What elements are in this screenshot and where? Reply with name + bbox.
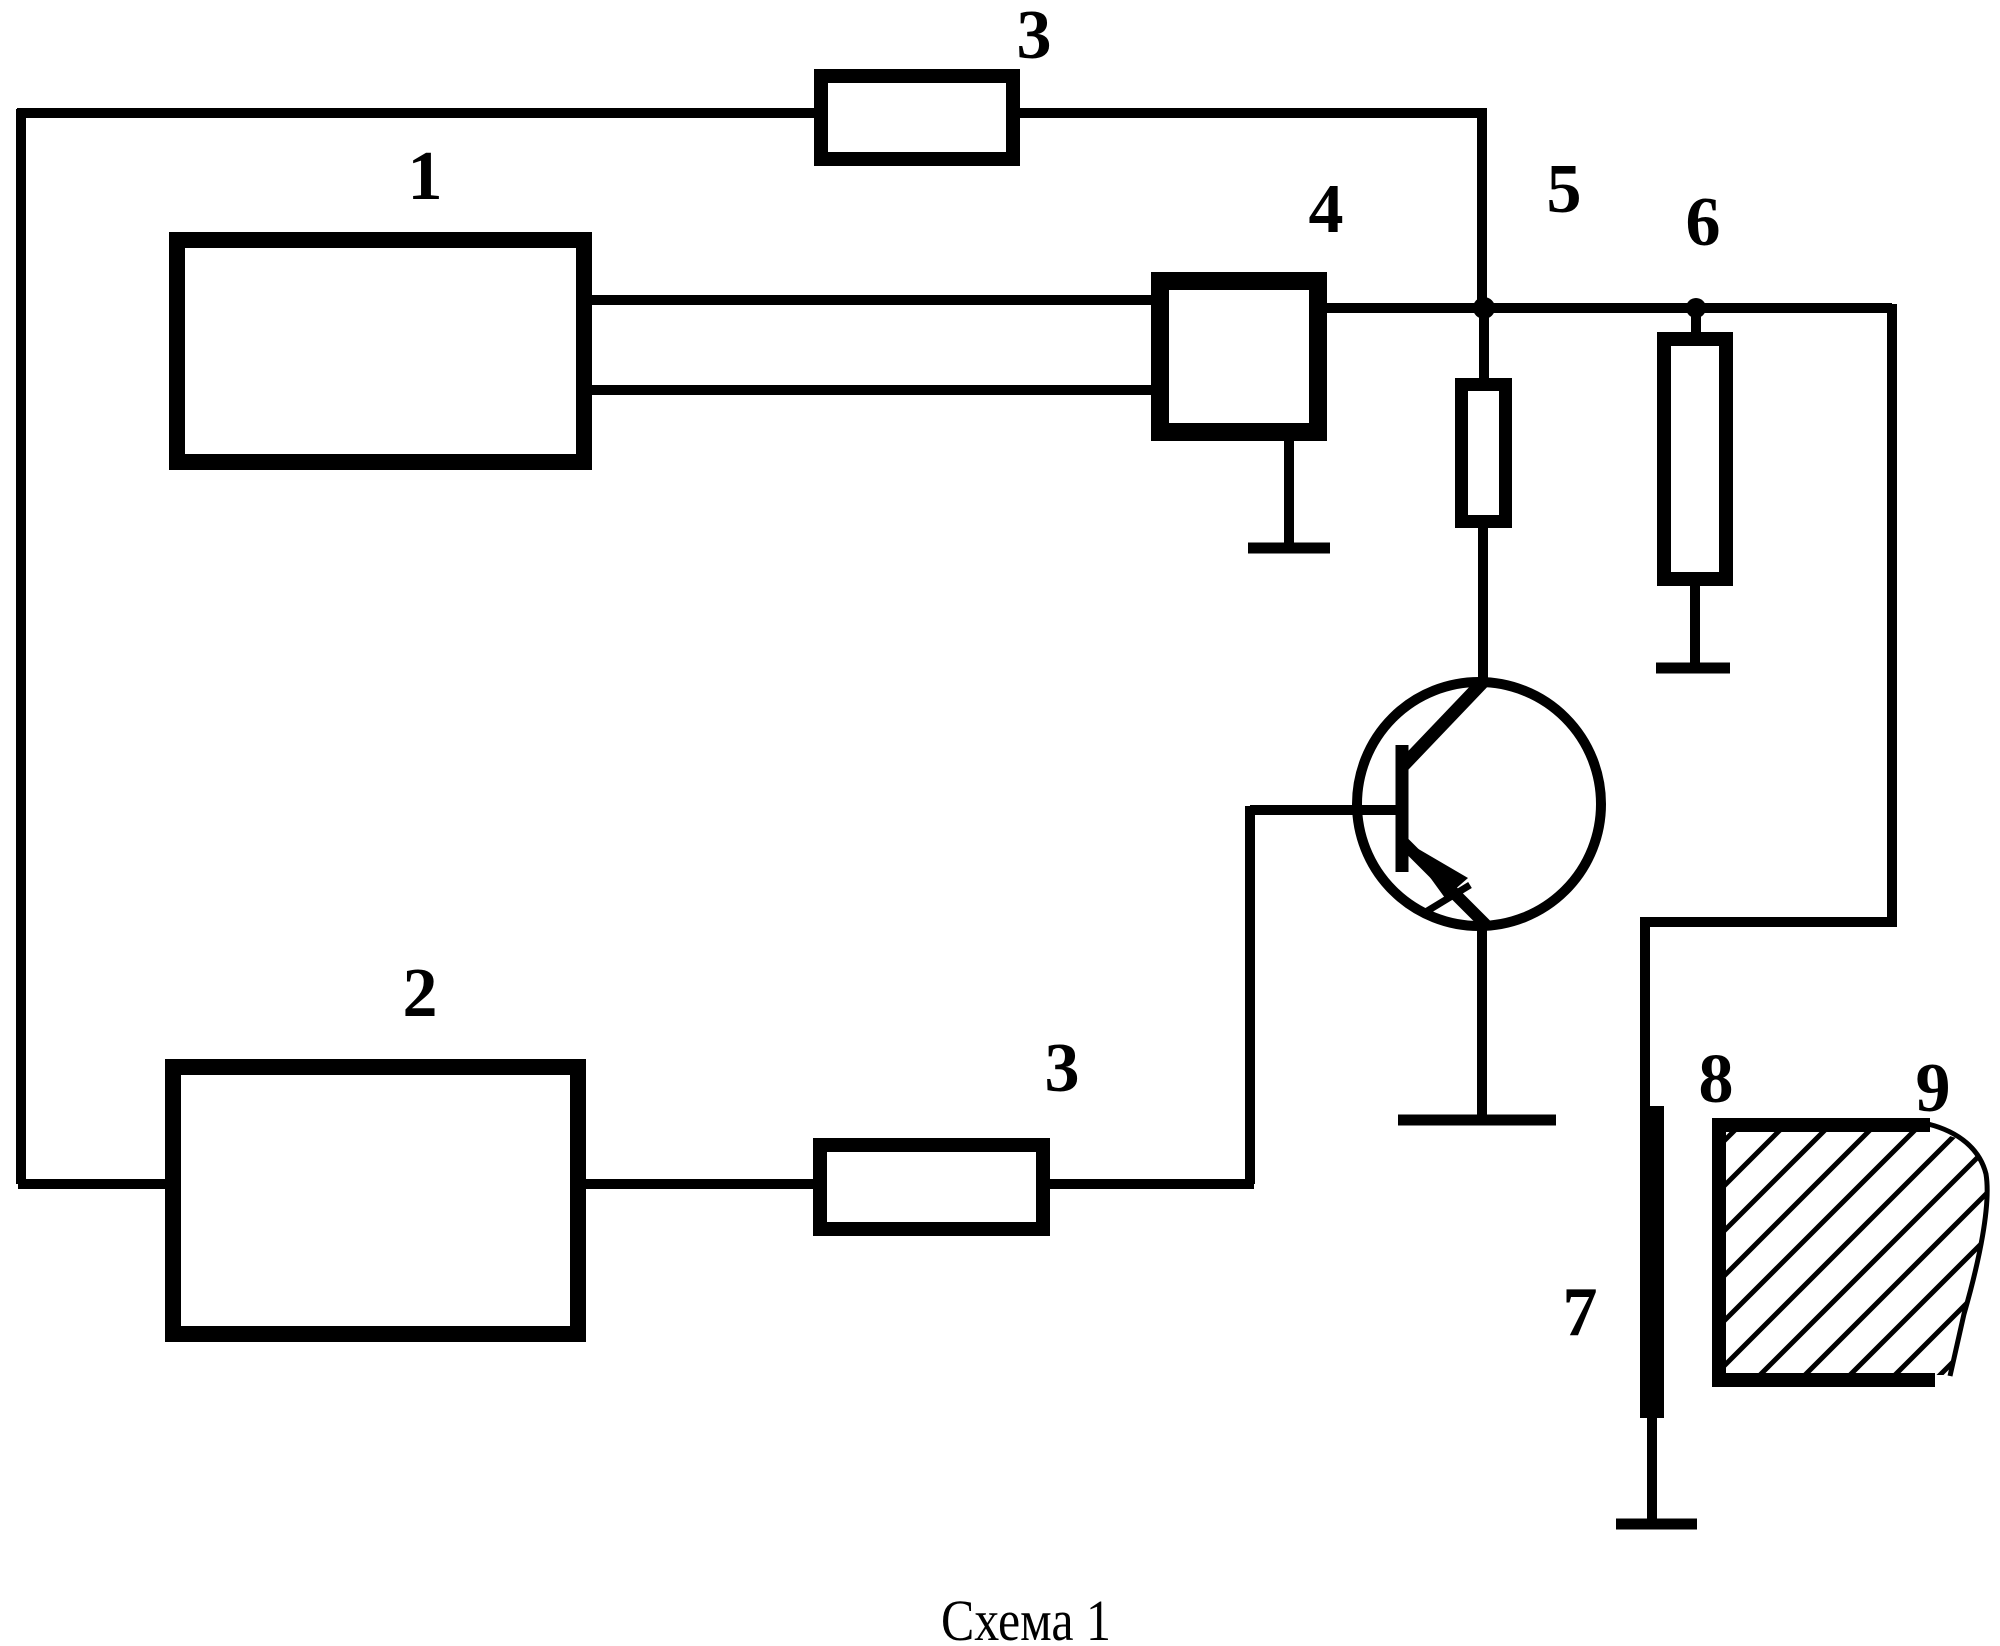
sample 8/9: irregular right outline bbox=[1928, 1124, 1987, 1376]
sample 8/9: thick bottom edge bbox=[1712, 1373, 1935, 1387]
svg-text:6: 6 bbox=[1686, 184, 1721, 261]
transistor emitter arrow overdraw stroke bbox=[1424, 885, 1470, 913]
wire: below electrode 7 to ground bbox=[1647, 1418, 1657, 1524]
svg-text:4: 4 bbox=[1309, 171, 1344, 248]
transistor emitter diagonal bbox=[1404, 843, 1486, 925]
resistor R3 (top feedback) bbox=[821, 76, 1013, 159]
ground bar under resistor 6 bbox=[1656, 663, 1730, 674]
svg-text:7: 7 bbox=[1563, 1274, 1598, 1351]
svg-text:3: 3 bbox=[1045, 1030, 1080, 1107]
wire: block 4 output bus to right rail bbox=[1319, 303, 1892, 313]
resistor R3 (bottom) bbox=[820, 1145, 1043, 1229]
transistor emitter arrowhead (points to base, PNP) bbox=[1403, 840, 1468, 898]
svg-text:2: 2 bbox=[403, 955, 438, 1032]
transistor Q (circle) bbox=[1357, 682, 1601, 926]
svg-text:1: 1 bbox=[408, 138, 443, 215]
electrode 7 (thick bar) bbox=[1640, 1106, 1664, 1418]
ground bar under emitter bbox=[1398, 1115, 1556, 1126]
wire: node B stub to resistor 6 bbox=[1691, 308, 1701, 342]
wire: node A down to resistor 5 bbox=[1479, 308, 1489, 384]
transistor collector diagonal bbox=[1401, 681, 1484, 768]
resistor R6 (vertical) bbox=[1664, 339, 1726, 579]
wire: emitter down from transistor bbox=[1477, 924, 1487, 1120]
svg-text:5: 5 bbox=[1547, 151, 1582, 228]
wire: left vertical rail bbox=[16, 109, 26, 1184]
ground bar under block 4 bbox=[1248, 543, 1330, 554]
block 2 bbox=[173, 1067, 578, 1334]
wire: resistor 3 to corner above node 5, then down to node bbox=[1016, 113, 1482, 308]
wire: resistor 5 to transistor collector bbox=[1478, 522, 1488, 686]
block 4 bbox=[1160, 281, 1318, 432]
svg-text:Схема 1: Схема 1 bbox=[941, 1588, 1111, 1646]
ground bar under electrode 7 bbox=[1616, 1519, 1697, 1530]
transistor base bar bbox=[1396, 745, 1409, 872]
wire: base lead from riser to base bar bbox=[1250, 805, 1400, 815]
sample 8/9: thick left edge bbox=[1712, 1118, 1726, 1387]
ground stem under resistor 6 bbox=[1690, 577, 1700, 668]
wire: right rail from bus corner down bbox=[1645, 304, 1892, 1110]
wire: block 1 upper output to block 4 bbox=[583, 295, 1157, 305]
ground stem under block 4 bbox=[1284, 439, 1294, 548]
wire: block 2 to resistor 3 (bottom) bbox=[579, 1179, 820, 1189]
node B (junction dot above resistor 6) bbox=[1686, 298, 1706, 318]
wire: resistor 3 (bottom) to base riser bbox=[1036, 1179, 1254, 1189]
wire: top feedback rail from left rail to resistor 3 bbox=[17, 108, 818, 118]
svg-text:3: 3 bbox=[1017, 0, 1052, 74]
svg-text:8: 8 bbox=[1699, 1041, 1734, 1118]
svg-text:9: 9 bbox=[1916, 1050, 1951, 1127]
block 1 bbox=[177, 240, 584, 462]
sample 8/9: hatch lines bbox=[1455, 1080, 2000, 1410]
node A (junction dot at node 5) bbox=[1473, 297, 1495, 319]
resistor R5 (vertical) bbox=[1462, 385, 1506, 522]
wire: bottom-left horizontal into block 2 bbox=[18, 1179, 172, 1189]
wire: base riser from bottom wire up bbox=[1245, 806, 1255, 1184]
sample 8/9: thick top edge bbox=[1712, 1118, 1930, 1132]
wire: block 1 lower output to block 4 bbox=[583, 385, 1157, 395]
